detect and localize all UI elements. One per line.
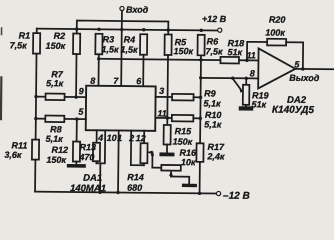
resistor R8 (45, 116, 64, 144)
resistor R3 (95, 34, 119, 55)
svg-text:R14: R14 (127, 172, 144, 182)
svg-text:2,4к: 2,4к (206, 151, 225, 161)
svg-text:R20: R20 (269, 15, 286, 25)
svg-text:5,1к: 5,1к (46, 78, 64, 88)
scan smudge left edge (0, 76, 2, 120)
resistor R4 (121, 34, 148, 55)
wire: output from op-amp (295, 68, 333, 70)
resistor R13 (pin 4) (78, 130, 100, 163)
svg-text:150к: 150к (173, 46, 193, 56)
resistor R2 (46, 31, 81, 54)
svg-text:К140УД5: К140УД5 (272, 105, 315, 116)
junction dots on +12 rail (75, 27, 203, 32)
potentiometer R19 (232, 78, 268, 111)
resistor R11 (4, 139, 39, 191)
wire: R5 lead long vertical to pin 11 node (166, 55, 169, 118)
wire: input stem x=121 from terminal to DA1 pin 7 (120, 11, 123, 86)
svg-text:10: 10 (107, 133, 117, 143)
resistor R9 (172, 88, 221, 109)
DA1 pin labels 8 7 6 (90, 76, 142, 87)
svg-text:150к: 150к (173, 137, 193, 147)
resistor R14 (pin 12, trimmed) (127, 131, 148, 193)
wire: pin 2 vertical and link to R14 bottom (131, 131, 144, 166)
svg-text:470: 470 (78, 152, 94, 162)
svg-text:8: 8 (90, 76, 95, 86)
IC DA1 box (70, 85, 156, 194)
wire: pin 1 vertical to -12 rail (117, 130, 120, 192)
svg-text:R4: R4 (124, 35, 136, 45)
input terminal Вход (120, 5, 149, 15)
svg-text:11: 11 (157, 108, 166, 118)
resistor R6 (197, 35, 223, 57)
svg-text:4: 4 (97, 133, 103, 143)
svg-text:R6: R6 (207, 36, 220, 46)
resistor R12 (46, 119, 80, 165)
svg-text:R15: R15 (175, 126, 193, 136)
svg-text:100к: 100к (265, 28, 285, 38)
trimmer R16 (152, 147, 197, 183)
resistor R5 (164, 34, 193, 56)
svg-text:R3: R3 (103, 34, 115, 44)
R14 wiper arrow to R16 (147, 150, 154, 167)
resistor R1 (10, 28, 41, 53)
wire: drop from R13/pin10 to -12 rail (99, 163, 101, 192)
wire: upper input wire y=21.5 (77, 21, 169, 35)
svg-text:51к: 51к (227, 47, 242, 57)
svg-text:7,5к: 7,5к (205, 46, 223, 56)
svg-text:Выход: Выход (289, 73, 320, 83)
wire: left column x=36 (35, 54, 38, 140)
svg-text:5,1к: 5,1к (203, 98, 221, 108)
svg-text:1,5к: 1,5к (121, 45, 139, 55)
resistor R15 (163, 118, 192, 153)
resistor R7 (46, 69, 65, 100)
svg-text:R1: R1 (19, 30, 31, 40)
wire: R2 bottom lead to pin 9 wire (75, 54, 77, 97)
op-amp DA2 (246, 48, 315, 116)
wire: op-amp pin 8 wire y=77.5 (201, 77, 258, 80)
svg-text:150к: 150к (46, 41, 66, 51)
svg-text:10к: 10к (181, 157, 196, 167)
svg-text:R12: R12 (51, 145, 68, 155)
ground under R15 (159, 152, 174, 156)
wire: pin 10 vertical joining R13 bottom (96, 130, 105, 163)
svg-text:7,5к: 7,5к (10, 40, 28, 50)
wire: DA1 pin 5 wire y=120 with R8 (36, 118, 86, 121)
junction dots on node wire y=59.5 (97, 57, 249, 62)
svg-text:R13: R13 (79, 142, 96, 152)
wire: DA1 pin 9 wire y=98 with R7 (36, 96, 86, 99)
wire: DA1 pin 11 to R10 (155, 117, 171, 119)
svg-text:R2: R2 (54, 31, 66, 41)
svg-text:3,6к: 3,6к (4, 150, 22, 160)
resistor R10 (172, 110, 222, 130)
svg-text:5,1к: 5,1к (204, 119, 222, 129)
svg-text:+12 В: +12 В (202, 14, 227, 24)
svg-text:R9: R9 (204, 88, 216, 98)
svg-text:3: 3 (159, 86, 164, 96)
svg-text:1,5к: 1,5к (102, 44, 120, 54)
resistor R17 (196, 142, 225, 162)
svg-text:5,1к: 5,1к (46, 134, 64, 144)
wire: R4 lead to DA1 pin 6 (142, 55, 144, 86)
svg-text:Вход: Вход (126, 5, 149, 15)
wire: DA1 pin 3 to R9 (156, 96, 172, 98)
DA1 bottom pin labels 4 10 1 2 12 (97, 133, 146, 144)
wire: -12V rail (35, 192, 216, 194)
svg-text:680: 680 (127, 183, 142, 193)
+12V terminal (202, 14, 227, 32)
wire: long vertical x=200.5 (R6 bottom to -12 rail through R17) (199, 55, 202, 143)
svg-text:8: 8 (250, 68, 255, 78)
resistor R18 (220, 38, 244, 63)
wire: node wire y=59.5 from R3 bottom to op-amp pin 11 (97, 54, 99, 85)
svg-text:150к: 150к (46, 155, 66, 165)
svg-text:9: 9 (79, 86, 84, 96)
svg-text:–12 В: –12 В (223, 191, 250, 202)
svg-text:51к: 51к (251, 99, 266, 109)
ground under R16 wiper (182, 184, 197, 188)
resistor R20 + feedback wires (247, 14, 304, 69)
-12V terminal (216, 191, 249, 202)
wire: +12V rail y=30 (37, 29, 217, 31)
ground under R12 (67, 164, 86, 168)
